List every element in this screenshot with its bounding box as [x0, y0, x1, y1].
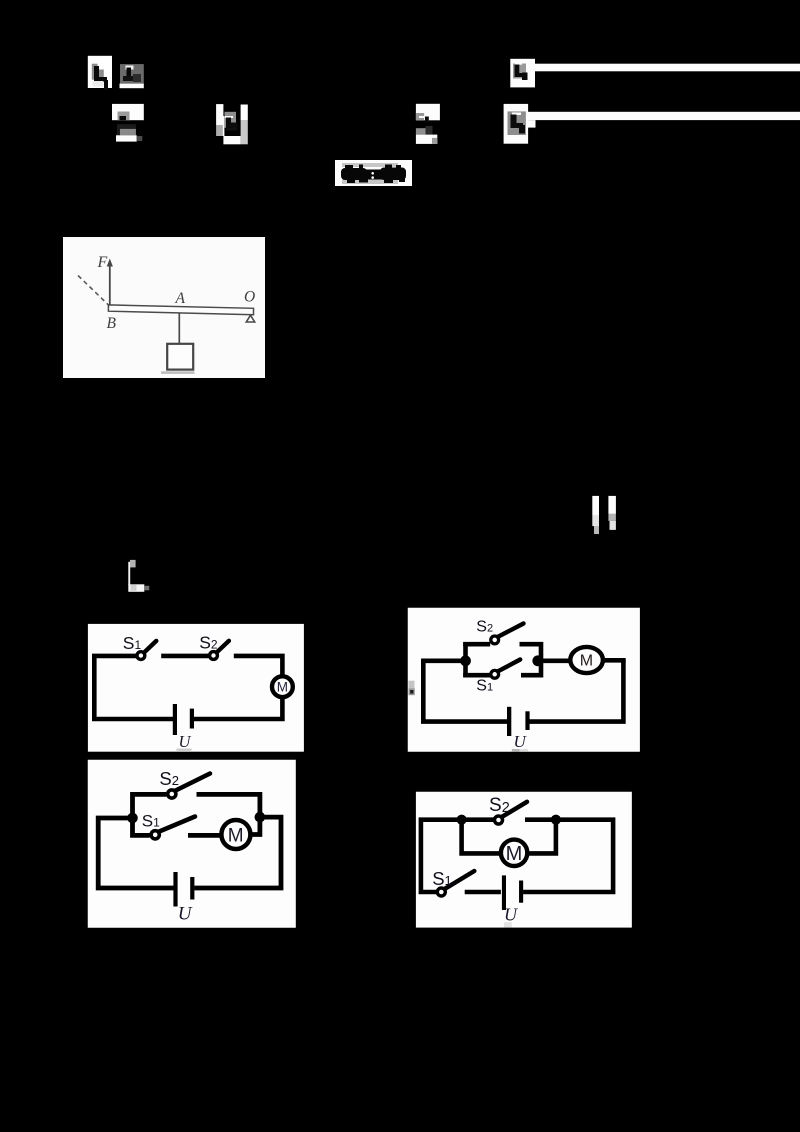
gray artifact below U — [504, 922, 512, 927]
fragment small S block — [115, 555, 175, 605]
svg-text:B: B — [107, 315, 117, 332]
fragment block l1 — [416, 104, 440, 144]
wire parallel left vertical — [463, 642, 468, 677]
wire top-right and right — [523, 820, 613, 892]
wire left and bottom-left — [94, 656, 173, 719]
wire top-right bracket — [520, 644, 542, 675]
switch S2 — [168, 774, 210, 799]
figure background — [63, 237, 265, 378]
battery U — [507, 707, 530, 736]
node left junction — [460, 655, 471, 666]
wire top branch left — [133, 794, 167, 816]
switch S1 — [137, 641, 156, 660]
svg-text:A: A — [175, 290, 186, 307]
fulcrum triangle — [246, 315, 254, 322]
weight block — [167, 344, 193, 370]
wire bottom branch — [463, 673, 490, 678]
switch S1 — [151, 817, 195, 839]
force arrow — [107, 259, 113, 307]
fragment U-shaped block — [216, 104, 248, 144]
svg-text:M: M — [277, 680, 288, 695]
motor M — [272, 676, 293, 697]
list marker artifact — [409, 681, 415, 696]
switch S1 — [491, 660, 520, 679]
svg-text:M: M — [580, 653, 593, 670]
CIRCUIT-C — [87, 759, 296, 928]
wire bottom branch left — [133, 820, 150, 835]
wire top branch — [463, 642, 490, 647]
wire motor branch left — [462, 820, 502, 854]
LEVER-FIGURE — [63, 237, 265, 378]
battery U — [173, 872, 194, 907]
wire S2 to motor — [234, 656, 283, 677]
wire motor to battery — [194, 697, 283, 719]
fragment label L1 with line — [510, 59, 535, 88]
dashed guide line — [78, 276, 109, 306]
wire junction to motor — [536, 658, 572, 663]
switch S1 — [437, 871, 474, 896]
motor M — [221, 820, 250, 849]
weight shadow — [161, 371, 195, 374]
CIRCUIT-B — [407, 607, 641, 753]
wire left and bottom-left — [423, 661, 507, 722]
FORMULA-BOX — [333, 158, 415, 188]
fragment text block 2 — [120, 64, 144, 88]
node right junction — [532, 655, 543, 666]
wire top-left and left — [421, 820, 495, 892]
fragment text block 1 — [88, 56, 112, 90]
battery U — [173, 704, 194, 735]
switch S2 — [491, 624, 524, 644]
TOP-FRAGMENTS — [0, 0, 800, 200]
motor M — [570, 647, 603, 673]
battery U — [502, 875, 523, 910]
circuit B background — [408, 608, 640, 752]
fragment double bars — [575, 485, 635, 545]
wire motor branch right — [527, 820, 556, 854]
blank line 2 — [528, 112, 800, 120]
motor M — [501, 840, 527, 866]
svg-text:U: U — [504, 904, 518, 924]
wire bottom-right and right — [529, 660, 623, 721]
wire between S1 and S2 — [161, 654, 209, 659]
switch S2 — [210, 641, 229, 660]
svg-text:U: U — [514, 732, 528, 751]
svg-text:M: M — [506, 843, 523, 865]
label U underline — [177, 749, 192, 751]
CIRCUIT-D — [415, 791, 632, 928]
fragment block L2 — [504, 104, 536, 144]
svg-text:O: O — [244, 289, 255, 306]
string — [178, 314, 180, 345]
fragment text block 4 — [116, 124, 142, 141]
wire S1 to motor — [188, 833, 222, 838]
wire battery to S1 — [465, 890, 501, 895]
circuit D background — [416, 792, 632, 928]
node right junction — [255, 812, 266, 823]
wire left and bottom-left — [98, 818, 173, 888]
circuit C background — [88, 760, 296, 928]
formula text blob — [341, 165, 406, 184]
lever beam — [108, 305, 253, 315]
circuit A background — [88, 624, 304, 752]
wire motor to right corner — [602, 658, 626, 663]
svg-text:U: U — [179, 732, 192, 751]
formula highlight box — [335, 160, 412, 186]
wire top branch right — [197, 794, 260, 834]
blank line 1 — [535, 64, 800, 72]
CIRCUIT-A — [87, 623, 305, 753]
label U underline — [512, 749, 520, 752]
node left junction — [457, 815, 467, 825]
node right junction — [551, 815, 561, 825]
svg-text:U: U — [178, 904, 193, 925]
fragment text block 3 — [112, 104, 144, 120]
node left junction — [127, 813, 138, 824]
svg-text:M: M — [228, 825, 244, 846]
wire bottom-right and right — [194, 817, 281, 888]
svg-text:F: F — [97, 254, 108, 271]
switch S2 — [495, 802, 528, 824]
